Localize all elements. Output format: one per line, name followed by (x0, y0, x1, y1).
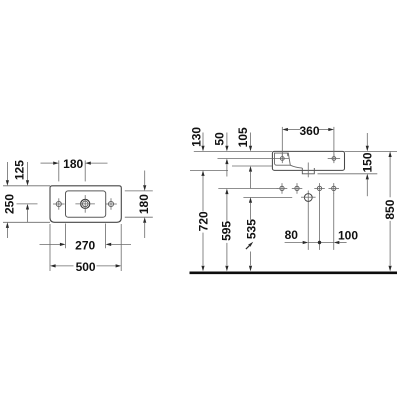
extension line: bowl bottom to left (232, 165, 272, 167)
dimension 595 (226, 194, 228, 265)
svg-text:360: 360 (299, 124, 319, 138)
extension line: basin bottom to left (190, 169, 228, 171)
dimension 270 (bottom, plan) (40, 224, 132, 249)
drain box (side) (302, 168, 314, 174)
bowl section (side) (275, 153, 303, 168)
dimension 180 (top, plan) (41, 160, 108, 181)
svg-text:535: 535 (245, 219, 259, 239)
svg-text:80: 80 (285, 228, 299, 242)
dimension 80 / 100 (bottom, side) (285, 242, 347, 244)
extension line: drain bottom to right (318, 173, 378, 175)
dimension 850 (far right) (389, 157, 391, 266)
svg-text:100: 100 (338, 228, 358, 242)
extension line: tap level to left (218, 158, 290, 160)
slope arrow symbol (246, 242, 253, 249)
svg-text:150: 150 (361, 152, 375, 172)
svg-text:270: 270 (75, 239, 95, 253)
svg-text:180: 180 (137, 194, 151, 214)
svg-text:595: 595 (220, 221, 234, 241)
svg-text:500: 500 (76, 260, 96, 274)
dimensions 130 / 50 / 105 (upper left of side view) (203, 133, 251, 146)
wall fixing point right (side) (328, 154, 340, 163)
svg-text:720: 720 (196, 211, 210, 231)
fixing hole left (plan) (53, 198, 65, 209)
svg-text:105: 105 (236, 127, 250, 147)
tap hole (75, 195, 95, 213)
dimension 535 with slope arrow (250, 203, 252, 266)
basin outer body (plan) (50, 186, 121, 223)
dimension 125 (left, plan) (17, 162, 38, 222)
drain centre line (307, 163, 309, 250)
dimension 360 (top, side) (282, 127, 334, 158)
130 bottom arrow / 50 bottom arrow / 105 bottom arrow (201, 159, 252, 177)
dimension 180 (right, plan) (125, 171, 153, 239)
svg-text:130: 130 (189, 127, 203, 147)
svg-text:250: 250 (3, 194, 17, 214)
basin bowl (plan) (66, 191, 106, 217)
extension line: siphon centre to left (243, 196, 292, 198)
dimension 250 (left, plan) (3, 162, 50, 238)
dimension 150 (right, side) (366, 133, 368, 196)
extension line: basin top to both sides (194, 150, 397, 152)
dimension 500 (bottom, plan) (50, 224, 121, 271)
fixing hole right (plan) (105, 198, 117, 209)
tap hole (side) (280, 154, 284, 163)
svg-text:125: 125 (12, 160, 26, 180)
dimension 720 (202, 175, 204, 265)
fixing holes row (side) (280, 186, 336, 190)
basin body (side) (272, 151, 344, 170)
svg-text:850: 850 (383, 199, 397, 219)
siphon circle (301, 194, 316, 202)
floor line (190, 271, 398, 274)
extension line: fixing row to left (218, 188, 277, 190)
extension verticals below (320, 193, 334, 250)
svg-text:50: 50 (212, 132, 226, 146)
svg-text:180: 180 (63, 157, 83, 171)
